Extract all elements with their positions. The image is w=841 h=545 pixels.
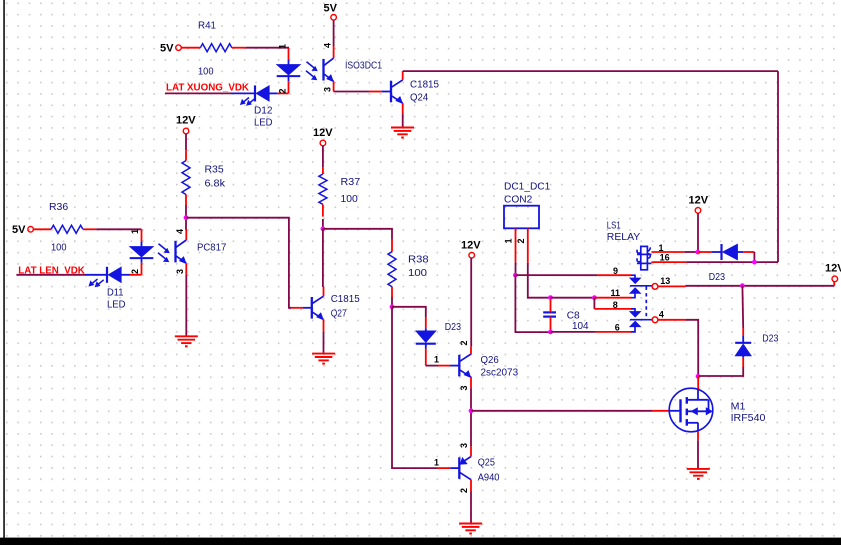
node C8 top [548,295,553,300]
pin Q25 bottom [470,480,472,491]
relay contact 9 arm [631,275,635,278]
opto PC817 LED [130,247,154,258]
svg-text:12V: 12V [825,263,841,275]
pin PC817.3 [185,263,187,274]
svg-text:4: 4 [322,43,332,48]
wire D23 to Q26 base [426,365,438,367]
opto ISO3DC1 light arrows [307,62,315,68]
pin relay 1 [652,251,685,253]
resistor R41 [200,44,231,52]
resistor R37 [319,174,327,204]
svg-text:12V: 12V [461,240,481,252]
pin diode (relay) left [698,251,712,253]
wire Q27 emitter to ground [323,332,325,353]
svg-text:LS1: LS1 [607,220,621,232]
mosfet M1 IRF540 [669,388,713,432]
pin M1 gate [652,410,669,412]
svg-text:6.8k: 6.8k [205,178,226,190]
svg-text:R38: R38 [408,254,429,266]
sheet bottom border [0,538,841,545]
LED D12 emission arrows [243,98,249,103]
pin Q25 base [438,467,451,469]
pin Q26 emitter [470,377,472,388]
svg-text:1: 1 [434,458,439,468]
svg-text:LED: LED [254,117,273,129]
wire CON2.1 to bottom rail [515,275,550,332]
pin relay 8 [594,308,631,310]
svg-text:1: 1 [434,355,439,365]
svg-text:2sc2073: 2sc2073 [481,367,519,379]
pin relay 11 [594,297,631,299]
pin Q24 emitter [402,103,404,114]
wire to 12V far right port [833,282,835,286]
pin Q24 base [369,91,382,93]
pin PC817.4 [185,230,187,240]
pin Q27 base [291,307,303,309]
wire LAT XUONG_VDK [165,92,231,94]
resistor R36 [51,225,83,233]
svg-text:D11: D11 [107,287,124,299]
svg-text:IRF540: IRF540 [731,412,766,424]
svg-text:2: 2 [130,269,140,274]
svg-text:16: 16 [660,253,670,263]
svg-text:ISO3DC1: ISO3DC1 [345,60,382,72]
pin 13 out [658,285,686,287]
diode D23 (relay) [712,251,721,253]
svg-text:100: 100 [51,242,67,254]
wire Q26 emitter down [470,388,472,446]
wire diode to 16 rail [753,252,755,262]
svg-text:D12: D12 [254,105,273,117]
pin D23.k [425,349,427,366]
wire R36 to PC817 pin1 [96,228,141,230]
wire M1 source to ground [697,440,699,468]
svg-text:100: 100 [198,66,214,78]
node R35/PC817 [184,215,189,220]
relay contact common 13 [630,285,652,287]
wire junction to D23 [392,307,426,317]
pin R36.1 [34,228,52,230]
svg-text:3: 3 [459,385,469,390]
svg-text:2: 2 [516,238,526,243]
opto ISO3DC1 LED pin 1 [288,49,290,61]
wire junction to R38 [323,229,392,240]
pin ISO3DC1.4 [333,46,335,58]
wire 9-net [515,274,597,276]
power port 5V (R36) [28,227,34,233]
node CON2.1 [513,273,518,278]
wire 5V to pin4 [333,20,335,46]
svg-text:D23: D23 [709,271,725,283]
pin relay 6 [596,331,631,333]
relay LS1 coil [641,246,648,269]
svg-text:C1815: C1815 [331,293,360,305]
power port 12V (R37) [320,140,326,146]
svg-text:Q26: Q26 [481,354,499,366]
power port 12V (far right) [832,276,838,282]
LED D11 [85,274,106,276]
svg-text:2: 2 [459,488,469,493]
pin C8.2 [550,317,552,332]
opto PC817 phototransistor [174,241,176,263]
relay contact 11 arm [631,293,635,297]
node C8 bottom [548,330,553,335]
pin relay 16 [652,261,687,263]
svg-text:Q27: Q27 [331,308,347,320]
wire Q25 to ground [470,491,472,523]
svg-text:R35: R35 [205,164,224,176]
pin relay 9 [597,274,631,276]
ground (Q25) [459,523,482,525]
wire coil pin1 net [684,251,698,253]
node R37/Q27 [321,226,326,231]
svg-text:1: 1 [503,238,513,243]
svg-text:5V: 5V [160,43,174,55]
pin Q26 collector [470,347,472,355]
svg-text:RELAY: RELAY [607,231,640,243]
svg-text:Q25: Q25 [478,457,495,469]
wire 4 to M1 drain [686,320,698,377]
LED D12 [231,92,254,94]
svg-text:2: 2 [277,88,287,93]
power port 5V (ISO3DC1) [331,14,337,20]
resistor R35 [182,161,190,195]
svg-text:3: 3 [459,443,469,448]
opto PC817 light arrows [159,244,167,250]
svg-text:M1: M1 [731,401,746,413]
svg-text:12V: 12V [689,195,709,207]
power port 12V (Q26) [469,252,475,258]
pin M1 source [697,432,699,441]
svg-text:4: 4 [175,229,185,234]
pin Q26 base [438,365,451,367]
svg-text:5V: 5V [12,224,26,236]
svg-text:DC1_DC1: DC1_DC1 [504,181,550,193]
pin ISO3DC1.3 [333,81,335,91]
svg-text:9: 9 [613,266,618,276]
svg-text:1: 1 [130,229,140,234]
pin R35.2 [185,195,187,206]
wire 12V to coil net [697,213,699,252]
terminal 13 [652,284,658,290]
wire R38 to junction [391,297,393,307]
connector CON2 DC1_DC1 [504,206,539,229]
svg-text:R41: R41 [198,20,216,32]
node M1 drain [696,374,701,379]
svg-text:12V: 12V [176,115,196,127]
opto ISO3DC1 phototransistor [322,59,324,81]
opto ISO3DC1 LED [277,65,301,76]
node 13/D23 right [740,283,745,288]
svg-text:100: 100 [341,193,358,205]
svg-text:3: 3 [175,269,185,274]
pin M1 drain [697,376,699,389]
transistor Q25 A940 [458,457,460,479]
svg-text:104: 104 [572,320,589,332]
wire 8-net [593,298,595,309]
wire junction down to Q27 collector [322,229,324,287]
svg-text:13: 13 [660,276,670,286]
pin R41.1 [182,47,201,49]
wire drain junction to D23 right [698,367,743,376]
wire CON2.2 down [528,263,551,298]
pin R37.2 [322,204,324,216]
terminal 4 [652,317,658,323]
wire to relay pin16 row [686,261,778,263]
wire D23 right to 13 rail [741,286,744,328]
sheet left border [3,0,5,539]
node 16 rail [752,260,757,265]
power port 5V (R41) [176,45,182,51]
pin D23 right top [742,328,744,336]
wire Q24 emitter to ground [402,114,404,127]
pin Q25 top [470,446,472,456]
ground (M1) [687,468,710,470]
wire gate [471,410,652,412]
pin R35.1 [185,150,187,160]
ground (PC817) [175,335,198,337]
pin Q27 emitter [323,319,325,331]
pin C8.1 [550,298,552,313]
pin R38.2 [391,287,393,297]
svg-text:LED: LED [107,299,126,311]
pin R38.1 [391,240,393,252]
pin D23 right bottom [742,358,744,367]
svg-text:CON2: CON2 [504,194,532,206]
node Q26/Q25/M1 gate [469,408,474,413]
wire PC817.3 to ground [185,275,187,336]
pin R36.2 [83,228,97,230]
svg-text:PC817: PC817 [197,242,226,254]
pin Q27 collector [323,287,325,296]
node 11/8 split [592,295,597,300]
wire 12V to R35 [185,134,187,151]
capacitor C8 [543,311,556,313]
diode D23 (right) [742,356,744,358]
svg-text:4: 4 [659,309,664,319]
svg-text:R36: R36 [49,201,68,213]
pin CON2.1 [515,228,517,262]
wire R35 to junction [185,205,187,218]
svg-text:LAT XUONG_VDK: LAT XUONG_VDK [166,82,250,93]
opto PC817 LED pin 2 [141,258,143,263]
relay contact 6 arm [631,327,635,332]
svg-text:1: 1 [277,44,287,49]
svg-text:C1815: C1815 [410,79,439,91]
pin Q24 collector [402,71,404,80]
svg-text:D23: D23 [762,333,778,345]
svg-text:12V: 12V [313,127,333,139]
wire 6-net [551,331,596,333]
ground (Q24) [391,127,414,129]
resistor R38 [388,252,396,287]
svg-text:1: 1 [659,243,664,253]
wire PC817.4 drop [185,218,187,230]
pin D12.2 / wire to opto [277,92,289,94]
wire R38 junction down to Q25 [392,307,438,468]
pin D23.a [425,317,427,328]
wire ISO3DC1.3 to Q24 base [334,91,369,93]
node coil/diode [695,250,700,255]
svg-text:11: 11 [611,288,621,298]
wire 11-net [551,297,595,299]
opto PC817 LED pin 1 [141,229,143,242]
svg-text:2: 2 [459,340,469,345]
diode D23 (mid) [425,328,427,331]
wire top right vertical [777,71,779,262]
svg-text:6: 6 [615,323,620,333]
LED D11 emission arrows [91,279,97,284]
wire R41 to ISO3DC1 pin1 [246,47,289,49]
pin R41.2 [232,47,246,49]
pin 4 out [658,319,686,321]
svg-text:A940: A940 [478,472,500,484]
wire 12V to Q26 collector [470,258,472,347]
wire LAT LEN_VDK [16,274,85,276]
wire R37 to junction [322,219,324,229]
relay mech link (dashed) [645,287,647,320]
svg-text:5V: 5V [324,3,338,15]
svg-text:D23: D23 [445,321,461,333]
relay contact 8 arm [631,309,635,312]
relay contact common 4 [630,319,652,321]
svg-text:3: 3 [322,87,332,92]
pin CON2.2 [527,228,529,262]
svg-text:8: 8 [613,300,618,310]
transistor Q26 2sc2073 [458,355,460,377]
transistor Q24 C1815 [390,81,392,103]
ground (Q27) [312,353,335,355]
wire junction to Q27 base corner [186,218,291,308]
wire CON2.1 down [515,262,517,275]
transistor Q27 C1815 [311,297,313,319]
wire 12V to R37 [322,146,324,168]
wire 13 to 12V right [685,285,834,287]
power port 12V (R35) [183,128,189,134]
opto ISO3DC1 LED pin 2 [288,76,290,81]
pin R37.1 [322,168,324,174]
pin D11.2 / wire to opto [130,274,142,276]
svg-text:R37: R37 [341,176,361,188]
svg-text:Q24: Q24 [410,92,428,104]
svg-text:100: 100 [408,267,427,279]
pin diode (relay) right [743,251,754,253]
power port 12V (relay) [695,208,701,214]
wire Q24 collector to top right [403,70,778,72]
node R38/Q25/D23 [390,304,395,309]
